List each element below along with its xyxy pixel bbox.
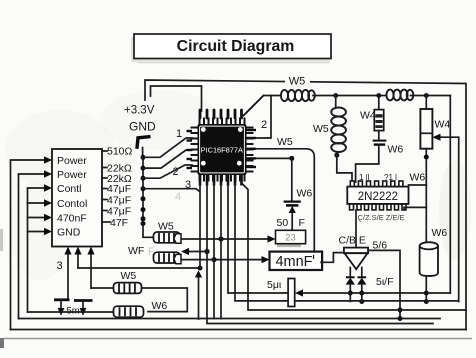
wire coil to 2N2222 bbox=[337, 152, 352, 182]
svg-text:W5: W5 bbox=[289, 76, 306, 88]
junction dots column bbox=[141, 155, 146, 160]
power rail A (top long rail) bbox=[145, 80, 466, 310]
transistor triangle bbox=[345, 253, 368, 269]
resistor WF bbox=[154, 252, 181, 263]
arrow into block bottom 1 bbox=[67, 252, 69, 299]
resistor W5 (row 237) bbox=[154, 232, 181, 243]
wire W5 loop bbox=[142, 288, 188, 312]
wire node to chip pin 1 bbox=[143, 138, 192, 157]
bus line row 318 bbox=[19, 318, 441, 320]
value label 47F bbox=[102, 221, 110, 223]
arrow into 5u bbox=[303, 292, 451, 294]
transistor bar bbox=[344, 248, 368, 254]
svg-text:2N2222: 2N2222 bbox=[358, 191, 398, 203]
chip bottom wire vD bbox=[220, 183, 222, 319]
op chip U1 PIC16F877A bbox=[187, 110, 257, 186]
inductor W5 (top left coil) bbox=[281, 90, 315, 101]
node dot cap branch bbox=[289, 156, 294, 161]
value label 22k ohm bbox=[102, 177, 107, 179]
ground symbol bbox=[137, 137, 151, 149]
node label W5 (top rail) bbox=[285, 73, 310, 86]
svg-text:W5: W5 bbox=[121, 270, 137, 282]
svg-text:4mnF: 4mnF bbox=[275, 254, 312, 270]
wire input 1 bbox=[11, 160, 45, 330]
wire cap to 2N2222 bbox=[356, 145, 379, 182]
svg-text:470nF: 470nF bbox=[57, 212, 87, 224]
value label 47uF bbox=[102, 199, 107, 201]
title box bbox=[134, 34, 331, 59]
svg-text:WF: WF bbox=[128, 245, 144, 257]
box 23 bbox=[276, 230, 306, 243]
svg-text:GND: GND bbox=[129, 120, 156, 134]
shadow mark above 4mnF bbox=[277, 245, 301, 248]
node dot coil bottom bbox=[334, 153, 339, 158]
node dots collector line bbox=[398, 308, 403, 313]
wire chip to rail diagonal bbox=[244, 96, 264, 116]
stub terminal 5m A bbox=[54, 298, 70, 301]
svg-text:510Ω: 510Ω bbox=[107, 146, 133, 158]
svg-text:+3.3V: +3.3V bbox=[124, 105, 155, 117]
resistor W4 striped bbox=[378, 96, 380, 110]
rail B bracket bbox=[151, 86, 202, 111]
svg-text:PIC16F877A: PIC16F877A bbox=[201, 146, 243, 155]
svg-text:3: 3 bbox=[57, 260, 63, 272]
resistor W5 (row 288) bbox=[91, 287, 114, 289]
svg-text:Contl: Contl bbox=[57, 183, 82, 195]
svg-text:W4: W4 bbox=[360, 110, 376, 122]
IC 2N2222 bbox=[350, 181, 403, 187]
svg-text:23: 23 bbox=[285, 233, 296, 244]
svg-text:W6: W6 bbox=[388, 144, 404, 156]
svg-text:2: 2 bbox=[261, 119, 267, 131]
wire input 6 bbox=[28, 231, 45, 233]
chip bottom wire vB bbox=[207, 183, 433, 324]
svg-text:Circuit Diagram: Circuit Diagram bbox=[177, 38, 295, 55]
svg-text:Power: Power bbox=[57, 155, 87, 167]
svg-text:Power: Power bbox=[57, 169, 87, 181]
wire input 3 bbox=[28, 188, 45, 312]
value label 47uF bbox=[102, 210, 107, 212]
wire chip right W5 line bbox=[256, 149, 314, 252]
svg-text:5μι: 5μι bbox=[267, 279, 282, 291]
capacitor W6 (below W4) bbox=[378, 131, 380, 140]
terminal tag W5 bbox=[174, 234, 181, 243]
right vertical from rail C bbox=[449, 96, 451, 294]
arrow into block bottom 3 bbox=[90, 252, 92, 288]
node dot rail/cylinder branch bbox=[424, 93, 429, 98]
controller block box bbox=[52, 149, 102, 247]
svg-text:W6: W6 bbox=[432, 227, 448, 239]
svg-text:47μF: 47μF bbox=[107, 183, 131, 195]
wire W4 down / node dot bbox=[425, 149, 427, 242]
arrow wire into W4 bbox=[440, 137, 459, 301]
node dot rail/W4 branch bbox=[376, 93, 381, 98]
arrow into block bottom 2 bbox=[77, 252, 79, 268]
svg-text:GND: GND bbox=[57, 226, 81, 238]
wire input 4 bbox=[28, 202, 45, 204]
wire 4mnF to transistor bbox=[321, 253, 344, 263]
svg-text:C̰/Ẓ.S/Ẹ Ẓ/Ẹ/Ẹ: C̰/Ẓ.S/Ẹ Ẓ/Ẹ/Ẹ bbox=[357, 213, 404, 222]
svg-text:W6: W6 bbox=[297, 188, 313, 200]
svg-text:W6: W6 bbox=[410, 172, 426, 184]
svg-text:47F: 47F bbox=[110, 217, 128, 229]
resistor W6 (row 312) bbox=[28, 311, 114, 313]
wire chip right to cap node bbox=[256, 157, 292, 159]
svg-text:F: F bbox=[148, 246, 154, 258]
arrow stub left bbox=[188, 251, 207, 253]
chip bottom wire vG bbox=[242, 183, 467, 310]
inductor W5 vertical coil bbox=[335, 96, 337, 109]
wire node row4 bbox=[143, 189, 199, 191]
svg-text:W6: W6 bbox=[152, 300, 168, 312]
svg-text:5ι/F: 5ι/F bbox=[376, 276, 394, 288]
wire input 5 bbox=[28, 217, 45, 219]
svg-text:W5: W5 bbox=[313, 123, 329, 135]
svg-text:?1 l: ?1 l bbox=[384, 173, 397, 182]
bus line row 329 bbox=[11, 329, 467, 331]
arrow wire into 23 box bbox=[221, 238, 268, 240]
chip bottom wire vE bbox=[228, 183, 288, 293]
arrow up to cap bbox=[291, 211, 293, 230]
wire collector right bbox=[368, 250, 400, 318]
wire long net row bbox=[78, 267, 200, 269]
wire base from IC bbox=[355, 210, 357, 248]
svg-text:4: 4 bbox=[175, 191, 181, 203]
box 4mnF bbox=[270, 252, 323, 270]
wire W5 to dot bbox=[180, 238, 221, 240]
diode D1 bbox=[349, 268, 351, 278]
wire IC right branch bbox=[409, 184, 427, 186]
wire input 2 bbox=[19, 174, 45, 319]
terminal tag WF bbox=[174, 254, 181, 263]
inductor (top right coil) bbox=[386, 90, 413, 101]
wire cylinder down bbox=[425, 276, 427, 302]
node dots diodes bbox=[348, 291, 353, 296]
wire node to chip pin 3 bbox=[143, 165, 192, 178]
svg-text:W5: W5 bbox=[158, 221, 174, 233]
chip bottom wire vC bbox=[213, 183, 215, 319]
arrow up line bbox=[198, 275, 200, 319]
stub terminal 5m B bbox=[74, 299, 93, 302]
wire net 2 drop bbox=[256, 96, 271, 139]
chip bottom wire vF bbox=[235, 183, 288, 301]
svg-text:5m: 5m bbox=[67, 306, 80, 317]
value label 47uF bbox=[102, 188, 107, 190]
svg-text:C/B E: C/B E bbox=[339, 235, 366, 247]
svg-text:1 lI: 1 lI bbox=[359, 173, 370, 182]
wire row 301 right bbox=[295, 300, 459, 302]
svg-text:50: 50 bbox=[277, 217, 289, 229]
wire WF lead bbox=[180, 259, 214, 261]
svg-text:47μF: 47μF bbox=[107, 205, 131, 217]
svg-text:1: 1 bbox=[176, 128, 182, 140]
main top net rail C bbox=[244, 96, 282, 116]
svg-text:F: F bbox=[299, 217, 305, 229]
svg-text:W5: W5 bbox=[277, 136, 293, 148]
svg-text:W4: W4 bbox=[435, 119, 451, 131]
node dot rail/vertical coil bbox=[333, 93, 338, 98]
table edge shadow line bbox=[4, 338, 472, 340]
svg-text:Contol: Contol bbox=[57, 198, 87, 210]
arrow wire into 4mnF bbox=[214, 259, 262, 261]
value label 22k ohm bbox=[102, 167, 107, 169]
value label 510 ohm bbox=[102, 150, 107, 152]
capacitor W6 (mid, above 23 box) bbox=[291, 158, 293, 201]
title shadow bbox=[131, 37, 137, 62]
wire node to chip pin 2 bbox=[143, 150, 192, 168]
wire IC bottom right to column bbox=[404, 207, 426, 210]
junction column wire bbox=[143, 156, 154, 238]
chip bottom wire vA bbox=[199, 183, 201, 268]
diode D2 bbox=[361, 268, 363, 278]
resistor W4 (right tall box) bbox=[425, 96, 427, 110]
